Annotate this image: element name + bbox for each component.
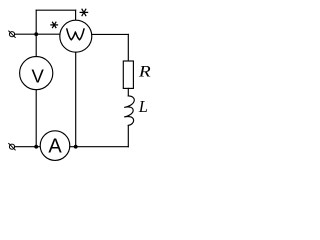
wattmeter letter W [67,29,84,40]
ammeter U3 circle [40,131,70,161]
wattmeter U1 circle [60,20,92,52]
wire: wattmeter right to top-right corner [92,33,129,35]
wire: riser junction a to top rail [35,10,37,34]
voltmeter U2 circle [20,57,53,90]
junction node c [74,145,78,149]
svg-text:R: R [138,63,151,80]
junction node a [34,32,38,36]
svg-text:V: V [32,66,45,87]
resistor R body [123,61,133,88]
junction node b [34,145,38,149]
wire: wattmeter bottom down to junction c [75,52,77,147]
wire: inductor down to bottom rail [127,125,129,146]
inductor L coil [124,96,134,126]
wire: top rail [36,9,75,11]
wire: ammeter right to junction c [70,146,76,148]
svg-text:A: A [48,135,62,157]
wire: top-right corner down to resistor [127,34,129,61]
wire: voltmeter bottom to junction b [35,90,37,147]
wire: junction a down to voltmeter top [35,34,37,56]
wire: bottom rail junction c to right corner [76,146,129,148]
wire: top terminal to wattmeter left [15,33,60,35]
wire: drop to wattmeter top [75,10,77,20]
terminal X2 (bottom input) [8,143,15,150]
terminal X1 (top input) [8,31,15,38]
asterisk polarity mark (voltage coil) [80,9,87,15]
svg-text:L: L [138,97,148,116]
asterisk polarity mark (current coil) [51,22,58,27]
wire: resistor to inductor [127,88,129,96]
wire: bottom terminal to ammeter left [15,146,41,148]
